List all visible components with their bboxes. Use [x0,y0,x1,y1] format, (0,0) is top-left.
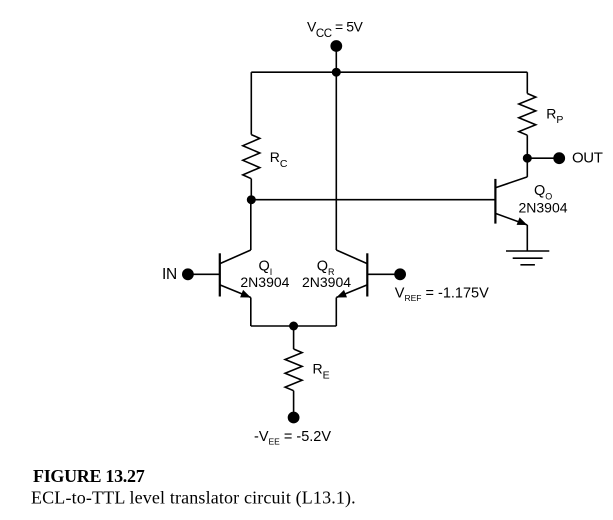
svg-text:IN: IN [162,266,177,283]
terminal VREF [394,268,406,280]
label QO [519,183,568,216]
svg-text:VCC = 5V: VCC = 5V [307,18,364,40]
label RE [313,361,330,382]
label QR [302,258,351,290]
terminal VCC [330,40,342,52]
wire QR base to VREF terminal [367,273,400,275]
label QI [240,258,289,290]
label RP [546,106,563,127]
svg-text:RC: RC [270,149,288,170]
resistor RC [243,135,260,179]
terminal OUT [553,152,565,164]
wire RE bottom to VEE terminal [293,391,295,418]
svg-text:OUT: OUT [572,149,603,166]
wire left drop to RC [250,72,252,134]
junction OUT node [523,154,532,163]
transistor QR [336,250,367,326]
caption figure number [33,466,145,486]
svg-text:2N3904: 2N3904 [519,199,568,215]
node VCC label [307,18,364,40]
label OUT [572,149,603,166]
label -VEE [254,429,331,447]
terminal -VEE [288,412,300,424]
transistor QI [220,200,251,326]
wire VCC terminal to top bus [335,46,337,72]
wire base bus to QO [251,199,495,201]
svg-text:FIGURE 13.27: FIGURE 13.27 [33,466,145,486]
transistor QO [495,158,527,251]
label VREF [395,285,489,303]
svg-text:RE: RE [313,361,330,382]
wire emitter bus [251,325,336,327]
svg-text:VREF = -1.175V: VREF = -1.175V [395,285,489,303]
wire IN to QI base [188,273,220,275]
wire center drop VCC to QR collector [335,72,337,250]
junction emitter node [289,322,298,331]
svg-text:-VEE = -5.2V: -VEE = -5.2V [254,429,331,447]
resistor RE [285,349,302,391]
junction RC / QI collector / QO base node [247,195,256,204]
svg-text:2N3904: 2N3904 [240,274,289,290]
wire right drop to RP [526,72,528,93]
junction top bus [332,68,341,77]
caption text [31,488,356,509]
label IN [162,266,177,283]
resistor RP [519,94,536,136]
wire OUT stub [527,157,559,159]
wire emitter junction to RE [293,326,295,349]
ground [506,251,549,265]
wire top bus [251,71,527,73]
svg-text:ECL-to-TTL level translator ci: ECL-to-TTL level translator circuit (L13… [31,488,356,509]
wire RP bottom to OUT junction [526,135,528,158]
svg-text:2N3904: 2N3904 [302,274,351,290]
svg-text:RP: RP [546,106,563,127]
wire RC bottom to junction [250,179,252,200]
label RC [270,149,288,170]
terminal IN [182,268,194,280]
